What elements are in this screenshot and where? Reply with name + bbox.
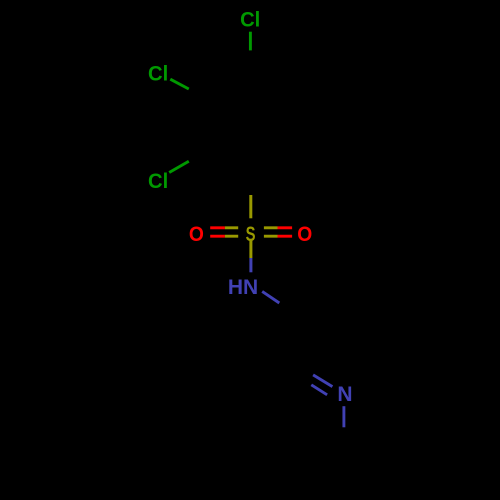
bond C4-Cl (chloro top, Cl half) [249, 32, 252, 51]
svg-text:O: O [189, 223, 204, 246]
double bond S=O right, lower line (S half olive, O half red) [264, 235, 278, 238]
double bond C2=N1 pyridine, main line (N half blue) [313, 375, 332, 387]
double bond S=O right, upper line (S half olive, O half red) [264, 226, 278, 229]
svg-text:Cl: Cl [148, 170, 168, 193]
svg-text:O: O [297, 223, 312, 246]
svg-text:N: N [337, 383, 352, 406]
bond S-N (S half olive, vertical below S) [249, 240, 252, 258]
bond S-N (N half blue) [249, 258, 252, 272]
bond C3-Cl (chloro middle, Cl half) [170, 79, 189, 89]
bond C2-Cl (chloro bottom, Cl half) [169, 161, 189, 172]
svg-text:Cl: Cl [148, 62, 168, 85]
bond N-CH2 (N half blue) [262, 291, 279, 303]
svg-text:HN: HN [228, 276, 258, 299]
bond C1-S (S half, vertical above S) [249, 195, 252, 218]
double bond S=O left, lower line (O half red, S half olive) [210, 235, 225, 238]
bond N1-C6 pyridine (N half blue, vertical below N) [342, 406, 345, 427]
double bond C2=N1 pyridine, inner line (N half blue) [311, 385, 327, 395]
svg-text:Cl: Cl [240, 9, 260, 32]
double bond S=O left, upper line (O half red, S half olive) [210, 226, 225, 229]
